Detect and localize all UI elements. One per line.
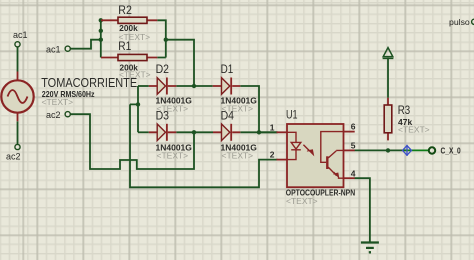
svg-text:TOMACORRIENTE: TOMACORRIENTE [41, 75, 137, 90]
svg-text:<TEXT>: <TEXT> [157, 151, 189, 161]
svg-text:ac1: ac1 [13, 30, 28, 40]
svg-text:1: 1 [270, 122, 275, 132]
svg-text:<TEXT>: <TEXT> [398, 125, 430, 135]
svg-text:ac2: ac2 [46, 110, 61, 120]
svg-text:ac1: ac1 [46, 44, 61, 54]
svg-text:U1: U1 [286, 108, 298, 122]
svg-text:5: 5 [351, 140, 356, 150]
svg-text:<TEXT>: <TEXT> [222, 151, 254, 161]
svg-text:<TEXT>: <TEXT> [42, 97, 74, 107]
svg-text:D3: D3 [156, 109, 169, 123]
svg-text:<TEXT>: <TEXT> [286, 196, 318, 206]
svg-text:D2: D2 [156, 62, 169, 76]
svg-text:R1: R1 [118, 39, 131, 53]
svg-text:6: 6 [351, 122, 356, 132]
svg-text:R2: R2 [118, 3, 132, 17]
svg-text:2: 2 [270, 150, 275, 160]
svg-text:ac2: ac2 [6, 151, 21, 161]
svg-text:D1: D1 [221, 62, 234, 76]
svg-text:C_X_0: C_X_0 [441, 146, 461, 156]
svg-text:R3: R3 [398, 103, 410, 117]
svg-text:pulso: pulso [449, 17, 470, 27]
svg-text:D4: D4 [221, 109, 234, 123]
svg-text:4: 4 [351, 168, 356, 178]
